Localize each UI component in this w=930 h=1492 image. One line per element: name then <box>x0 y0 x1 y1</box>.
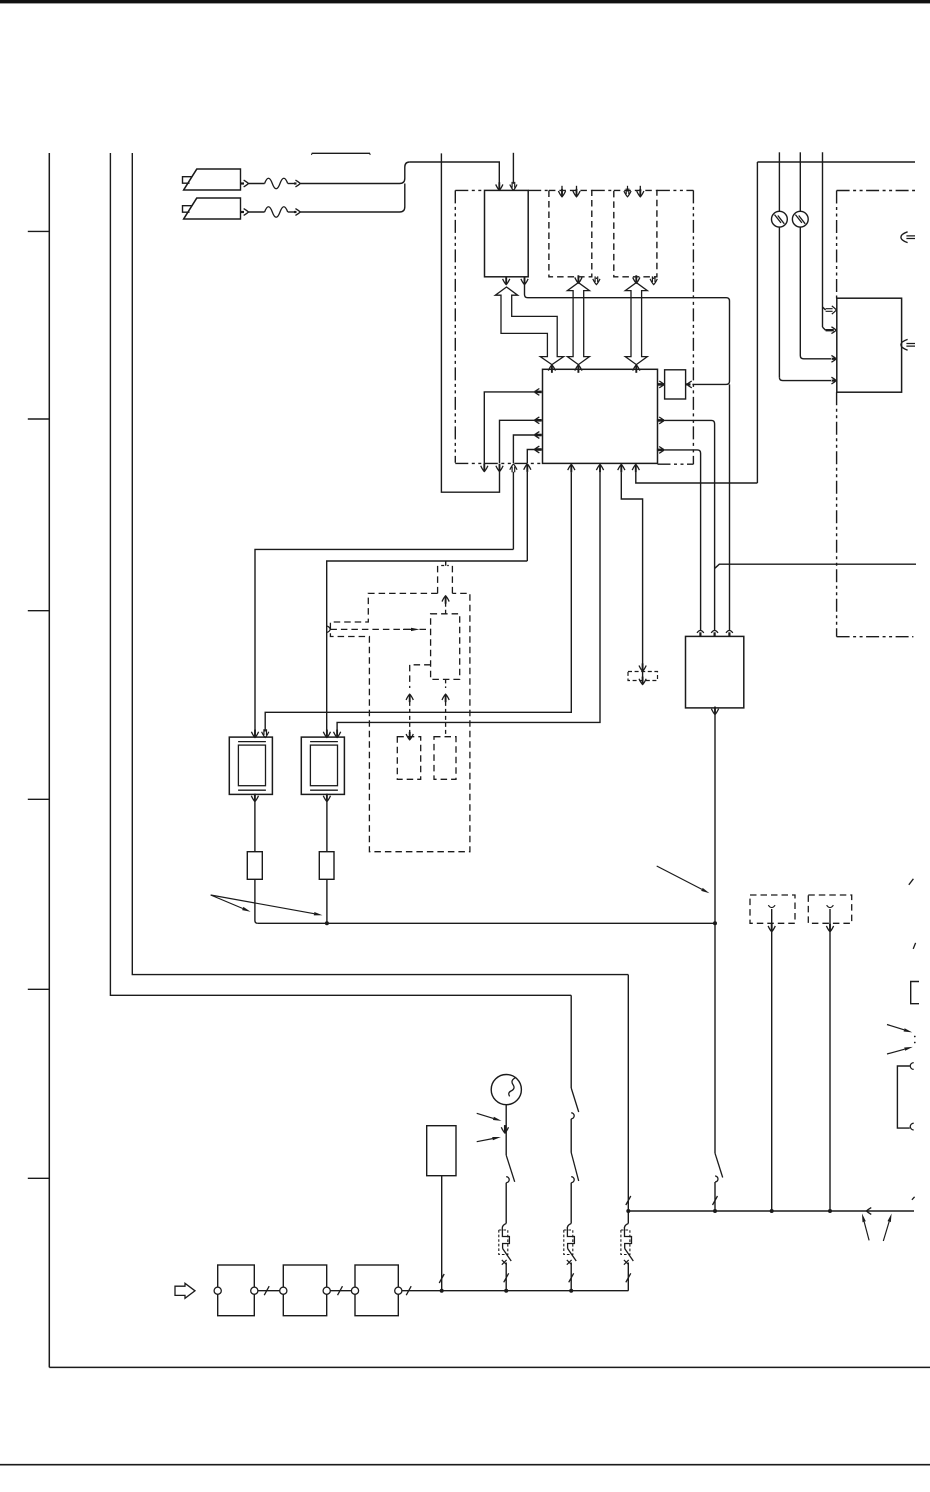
wire main unit to front speaker mute (W3) <box>265 472 571 731</box>
amp speaker terminal B (dashed box) <box>434 737 456 780</box>
power source block arrow <box>175 1283 195 1298</box>
main unit left pin 1 wire (to boundary, ends) <box>535 389 540 396</box>
lamp symbol 1 <box>772 211 788 227</box>
rear speaker feed run W2 <box>327 561 528 732</box>
resistor R rear <box>319 852 334 880</box>
jog branch to right-hand equipment (y=563.9) <box>715 564 916 568</box>
isolated label underline <box>312 152 370 154</box>
resistor R front <box>247 852 262 880</box>
wire main unit to rear speaker mute (W4) <box>337 472 600 731</box>
top border bar <box>0 0 930 3</box>
changer block-arrow end ticks <box>633 277 640 283</box>
changer block input arrow 1 <box>627 186 629 192</box>
bus block-arrow deck to main unit (vertical) <box>567 283 589 365</box>
page-edge callout leaders <box>887 1025 904 1030</box>
frame tick 2 <box>28 418 50 420</box>
main control unit box <box>543 369 658 463</box>
tap hook on rear feed wire <box>327 626 331 633</box>
feeder wire from connector P1 with cord symbol <box>241 182 245 184</box>
audio head unit boundary (dash-dot box) <box>454 190 456 462</box>
merge of feeder wires into antenna bus <box>400 162 410 184</box>
accessory connector B (dashed box) <box>808 895 851 923</box>
page-edge component box with terminals <box>897 1066 909 1128</box>
battery junction box 2 <box>283 1265 326 1316</box>
front speaker ground lead with resistor <box>251 796 258 802</box>
shield ground connector (dashed) <box>628 672 658 681</box>
main unit right pin 3 wire down to power amplifier <box>659 447 664 454</box>
relay output wire down to power amplifier <box>729 384 731 630</box>
bus block-arrow changer to main unit (vertical) <box>625 283 647 365</box>
feeder wire from connector P2 with cord symbol <box>241 211 245 213</box>
fuse link wire 1 <box>258 1290 280 1292</box>
changer block input arrow 2 <box>639 186 641 192</box>
accessory circuit breaker <box>564 1230 573 1255</box>
amp internal unit up-link (dashed wire) <box>445 602 447 614</box>
main unit left pin 4 wire to rear speaker feed <box>535 446 540 453</box>
glass antenna lead 1 with noise filter lamp <box>778 152 780 211</box>
amp internal unit (dashed box) <box>431 614 460 680</box>
tuner block (solid box) <box>485 190 529 276</box>
power amplifier box <box>686 636 744 708</box>
ignition key cylinder (circle) <box>491 1075 521 1105</box>
ignition switch lead <box>505 1105 507 1156</box>
resistor callout leaders <box>211 895 243 909</box>
antenna amplifier box (top right) <box>837 298 902 392</box>
fuse link wire 2 <box>330 1290 351 1292</box>
hollow arrow into glass antenna area <box>901 232 908 243</box>
wire main unit to shield ground connector <box>621 472 642 666</box>
wire feeder A (x=110.4) down then right to double-switch column <box>110 153 571 995</box>
main unit left pin 3 wire to front speaker feed <box>535 432 540 439</box>
amp speaker terminal A (dashed box) <box>397 737 420 780</box>
amp internal output right (dashed) <box>445 679 447 688</box>
frame tick 1 <box>28 230 50 232</box>
accessory switch column (x=571.2) <box>570 995 572 1088</box>
relay box output arrow <box>686 383 690 385</box>
ground callout leaders <box>864 1222 869 1241</box>
amplifier output arrow and wire to switch <box>711 709 718 715</box>
main unit right pin 2 wire down to power amplifier <box>659 417 664 424</box>
deck block-arrow end ticks <box>575 277 582 283</box>
speaker amp assembly boundary (dashed, with notch and chimney) <box>330 593 470 851</box>
stub arrow below changer block right <box>653 278 655 280</box>
changer block (dashed box) <box>614 190 657 276</box>
frame tick 4 <box>28 798 50 800</box>
rear speaker <box>301 737 344 794</box>
page-edge tick a <box>909 879 914 885</box>
glass antenna lead 2 with noise filter lamp <box>799 152 801 211</box>
boundary arrow rear speaker (solid up) <box>524 464 531 470</box>
ignition switch blade and contact <box>506 1155 515 1182</box>
antenna amplifier feed drop (x=757.4) <box>756 162 758 483</box>
stub arrow below deck block right <box>595 278 597 280</box>
lamp symbol 2 <box>792 211 808 227</box>
frame tick 3 <box>28 610 50 612</box>
main unit left pin 2 wire (loop return) <box>535 417 540 424</box>
amp assembly chimney (dashed) <box>438 566 445 594</box>
ground bus wire y=923.3 <box>258 922 715 924</box>
main unit right pin to relay box <box>659 381 664 388</box>
battery junction box 1 <box>218 1265 255 1316</box>
page-edge bracket connector <box>911 982 919 1004</box>
wire stub with label (x=513.4) into tuner box top <box>512 153 514 184</box>
front speaker <box>229 737 272 794</box>
bus block-arrow tuner to main unit (stepped) <box>495 287 563 365</box>
noise condenser lead <box>441 1176 443 1291</box>
solid entry arrow to antenna amplifier pin 2 <box>823 327 826 330</box>
tap stub from rear feed into chimney <box>445 561 447 566</box>
deck block input arrow 1 <box>561 186 563 192</box>
main circuit breaker <box>627 1211 629 1224</box>
amp internal output left (dashed) <box>410 665 431 688</box>
antenna bus wire (right segment) <box>757 161 915 163</box>
ignition callout leaders <box>477 1113 494 1118</box>
rear speaker ground lead with resistor <box>323 796 330 802</box>
wire from tuner return loop (x=441.4) up to label stub <box>441 153 499 492</box>
relay box <box>665 370 686 399</box>
tuner aux output wire to amplifier relay (y=297.5) <box>521 279 528 285</box>
frame tick 5 <box>28 988 50 990</box>
ground bus direction arrow <box>867 1208 872 1215</box>
ignition circuit breaker <box>499 1230 508 1255</box>
amp input dashed wire with arrow <box>330 628 412 630</box>
frame left border <box>48 153 50 1367</box>
frame bottom border <box>49 1366 930 1368</box>
ground bus wire y=1211 <box>628 1210 914 1212</box>
bottom rule line <box>0 1464 930 1466</box>
hollow entry arrow to antenna amplifier pin 1 <box>823 307 826 310</box>
boundary arrow front speaker (hollow up) <box>510 464 517 470</box>
amplifier output callout leader <box>657 866 702 889</box>
noise condenser box <box>427 1126 456 1176</box>
tuner block-arrow end ticks <box>503 279 510 285</box>
battery junction box 3 <box>355 1265 398 1316</box>
glass antenna boundary (dash-dot, right) <box>837 190 915 192</box>
feed bus wire y=1290.7 <box>402 1290 629 1292</box>
accessory connector A (dashed box) <box>750 895 795 923</box>
front speaker feed run W1 <box>255 549 513 731</box>
amplifier switch at bus <box>715 1153 723 1177</box>
wire feeder B (x=132.3) down then right to ASM switch column <box>132 153 628 975</box>
main relay switch column (x=628.3) <box>627 975 629 1211</box>
amplifier input arrows <box>697 631 704 633</box>
antenna connector P2 <box>184 198 241 219</box>
ground bus end tick <box>912 1197 915 1200</box>
main unit bottom pin arrows <box>568 464 575 470</box>
deck block (dashed box) <box>549 190 592 276</box>
deck block input arrow 2 <box>576 186 578 192</box>
page-edge tick b <box>913 943 915 949</box>
antenna bus wire (left segment) into tuner box <box>410 162 500 184</box>
hollow arrow into antenna amplifier right side <box>901 339 908 350</box>
antenna connector P1 <box>184 169 241 190</box>
frame tick 6 <box>28 1177 50 1179</box>
antenna control lead (x=822.5) with chamfer branches <box>822 152 824 327</box>
wire main unit to antenna bus junction <box>636 472 758 483</box>
stub arrow below tuner block left <box>505 278 507 280</box>
